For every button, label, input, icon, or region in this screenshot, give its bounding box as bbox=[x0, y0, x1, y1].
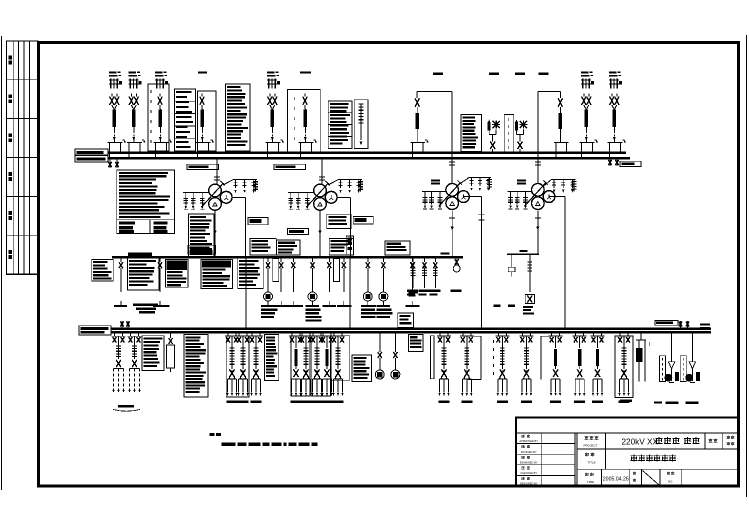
wire T3 MV lead bbox=[458, 178, 469, 186]
notes text block main transformers bbox=[117, 170, 175, 234]
neutral gear T3 bbox=[422, 191, 446, 193]
enclosure box T1 220kV bay bbox=[198, 91, 217, 151]
text nameplate T2 bbox=[327, 214, 351, 228]
wire T3 LV drop bbox=[451, 211, 453, 258]
svg-text:2005.04.26: 2005.04.26 bbox=[603, 477, 629, 483]
label 10kV bus left bbox=[79, 326, 111, 335]
label at 220kV bus end bbox=[620, 161, 641, 166]
neutral gear T4 bbox=[508, 191, 532, 193]
dashes on T3 right line bbox=[479, 213, 485, 215]
feeder 35kV T3 1 bbox=[412, 257, 414, 262]
enclosure box with arrester bbox=[354, 100, 368, 149]
feeder 110kV outgoing 1 bbox=[120, 257, 122, 262]
dashes inside box T2 bbox=[293, 97, 295, 100]
label 110kV bus section bbox=[188, 245, 215, 254]
neutral gear T2 bbox=[288, 191, 314, 193]
note heading bbox=[210, 433, 215, 436]
feeder 10kV 9 motor bbox=[379, 332, 381, 352]
mv gear T3 bbox=[469, 177, 491, 179]
notes block bottom cells bbox=[119, 222, 135, 225]
section divider line left bbox=[245, 257, 247, 328]
feeder 10kV 15 bbox=[551, 332, 553, 336]
svg-text:PROJECT: PROJECT bbox=[583, 444, 597, 448]
label right of T2 bbox=[353, 217, 373, 224]
wire 220kV bus to T2 bbox=[321, 158, 323, 184]
bay 220kV line bay 1 bbox=[109, 72, 117, 74]
label 10kV right end bbox=[700, 323, 710, 325]
enclosure box T4 220kV bay bbox=[538, 90, 561, 92]
enclosure box bypass bay bbox=[148, 84, 169, 151]
svg-text:TITLE: TITLE bbox=[587, 461, 595, 465]
label left of T3 bbox=[431, 179, 440, 181]
transformer T3 bbox=[446, 184, 459, 197]
wire jog near feeder 15 bbox=[541, 335, 549, 337]
equipment list block 4 bbox=[461, 115, 482, 152]
wire T2 MV lead bbox=[328, 180, 338, 185]
label 35kV group under block B bbox=[133, 304, 158, 307]
bay 220kV T3 breaker bay bbox=[415, 98, 419, 107]
mv gear T2 bbox=[338, 179, 362, 181]
svg-text:EXAMINED BY: EXAMINED BY bbox=[520, 460, 538, 464]
feeder 10kV 8 bbox=[333, 332, 335, 336]
bay 220kV PT 1 bbox=[488, 122, 491, 131]
left margin revision strip table bbox=[7, 41, 39, 274]
disconnector pair below 220kV bus left bbox=[109, 158, 111, 168]
note text line bbox=[222, 442, 236, 446]
feeder 110kV outgoing 2 bbox=[159, 257, 161, 262]
main drawing border bbox=[39, 43, 739, 487]
wire T2 LV drop bbox=[319, 210, 321, 257]
small box beside feeder 110kV 4 bbox=[273, 259, 279, 282]
wire T1 LV drop bbox=[214, 210, 216, 257]
small box beside feeder 110kV 7 bbox=[334, 259, 340, 282]
enclosure box 10kV group right bbox=[615, 336, 633, 398]
dashes box feeder bbox=[492, 340, 494, 343]
feeder 110kV outgoing 6 bbox=[312, 257, 314, 262]
wire T4 MV lead bbox=[544, 179, 552, 186]
text nameplate T1 bbox=[189, 214, 214, 257]
label 110kV bus bbox=[128, 253, 152, 258]
svg-text:RATIFIED BY: RATIFIED BY bbox=[521, 450, 537, 454]
enclosure box 10kV group 2 bbox=[291, 336, 310, 396]
feeder 10kV 7 bbox=[322, 332, 324, 336]
enclosure box 10kV group 1 bbox=[226, 336, 249, 397]
equipment block 110kV C bbox=[165, 259, 188, 287]
label box left of T1 drop bbox=[187, 164, 219, 169]
label above T3 35kV bus bbox=[440, 252, 449, 254]
svg-text:NO.: NO. bbox=[668, 480, 674, 484]
feeder 10kV 3 bbox=[251, 332, 253, 336]
equipment dark block 10kV 3 bbox=[409, 335, 424, 352]
equipment block 110kV E bbox=[238, 258, 264, 288]
bay 10kV PT right bbox=[640, 332, 642, 340]
dash marks left of T4 feeders bbox=[494, 305, 501, 307]
dashes inside PT2 box bbox=[507, 118, 509, 121]
feeder 110kV outgoing 7 bbox=[328, 257, 330, 262]
feeder 10kV 2 bbox=[238, 332, 240, 336]
feeder T4-35kV 1 bbox=[511, 254, 513, 262]
label PT right bbox=[620, 400, 632, 402]
label T3 bay top bbox=[433, 73, 443, 75]
bay 10kV arrester 2 bbox=[691, 332, 693, 361]
label T2 bay top bbox=[300, 72, 311, 74]
svg-text:CHECKED BY: CHECKED BY bbox=[520, 471, 537, 475]
label under T4 feeders bbox=[523, 306, 533, 308]
relay box 4 above 110kV bus bbox=[329, 238, 353, 255]
label right of T1 bbox=[248, 217, 268, 224]
busbar 110kV bus bbox=[112, 256, 463, 259]
enclosure box 10kV group 4 bbox=[332, 336, 350, 381]
equipment list block 2 bbox=[225, 84, 250, 151]
enclosure box 10kV group 3 bbox=[311, 336, 330, 396]
label 220kV bus I bbox=[75, 149, 108, 155]
feeder 35kV T3 3 bbox=[434, 257, 436, 262]
enclosure box 10kV group 5 bbox=[431, 336, 435, 379]
tick marks on T4 HV drop bbox=[535, 161, 541, 163]
tick marks on T3 HV drop bbox=[449, 161, 455, 163]
transformer T2 bbox=[314, 184, 327, 197]
label box left of T2 drop bbox=[274, 164, 306, 169]
feeder 110kV outgoing 9 bbox=[367, 257, 369, 262]
feeder 10kV 16 bbox=[575, 332, 577, 336]
relay box 2 above 110kV bus bbox=[277, 240, 301, 255]
feeder 10kV 17 bbox=[593, 332, 595, 336]
label arrester 2 bbox=[686, 402, 699, 404]
bay 220kV line bay 2 bbox=[129, 72, 137, 74]
wire T3 HV drop bbox=[451, 91, 453, 183]
label between T2 and divider bbox=[288, 228, 309, 234]
busbar 35kV section T4 bbox=[507, 253, 539, 255]
neutral gear T1 bbox=[183, 191, 209, 193]
relay box 3 on section divider bbox=[346, 236, 353, 255]
feeder 10kV 14 bbox=[521, 332, 523, 336]
transformer T4 bbox=[532, 184, 545, 197]
section divider line 110kV/10kV bbox=[349, 257, 351, 328]
relay box 5 above 110kV bus bbox=[385, 241, 410, 255]
disconnector pair above 10kV bus left bbox=[121, 321, 123, 329]
bay 10kV PT left bbox=[170, 332, 172, 338]
feeder 35kV T3 2 bbox=[424, 257, 426, 262]
wire T4 LV drop bbox=[537, 211, 539, 255]
bay 10kV arrester 1 bbox=[671, 332, 673, 361]
mv gear T4 bbox=[552, 178, 576, 180]
disconnector pair above 10kV bus right bbox=[680, 321, 682, 329]
outer sheet edge line left bbox=[1, 36, 3, 490]
label 10kV bus right bbox=[655, 321, 678, 326]
equipment block 10kV B bbox=[352, 355, 371, 381]
label 220kV bus II bbox=[75, 156, 108, 162]
feeder 10kV 6 bbox=[312, 332, 314, 336]
wire jog near feeder 12 bbox=[474, 335, 481, 337]
bay 220kV transformer T2 bay bbox=[303, 97, 307, 106]
enclosure box T3 220kV bay bbox=[417, 90, 452, 92]
equipment block 110kV D bbox=[201, 259, 233, 288]
bay 220kV line bay 4 bbox=[581, 72, 589, 74]
equipment list block 1 bbox=[175, 89, 196, 151]
equipment dark block 10kV 2 bbox=[264, 335, 278, 381]
feeder 10kV 1 bbox=[227, 332, 229, 336]
feeder 10kV cable 1 bbox=[114, 332, 116, 336]
bay 220kV line bay 3 bbox=[267, 72, 275, 74]
enclosure box PT 2 bbox=[504, 115, 514, 153]
feeder 110kV outgoing 10 bbox=[382, 257, 384, 262]
feeder 10kV 13 bbox=[497, 332, 499, 336]
label arrester 1 bbox=[666, 402, 679, 404]
wire 220kV bus to T1 bbox=[216, 158, 218, 184]
busbar 10kV bus line b bbox=[79, 331, 711, 333]
busbar 10kV bus line a bbox=[79, 327, 711, 329]
bay 220kV transformer T1 bay bbox=[200, 97, 204, 106]
feeder 110kV outgoing 11 bbox=[411, 257, 413, 262]
bay 220kV bypass bay bbox=[155, 72, 163, 74]
mv gear T1 bbox=[233, 179, 257, 181]
bay 220kV T4 breaker bay bbox=[558, 98, 562, 107]
dashes inside bypass box bbox=[150, 90, 152, 93]
enclosure box T2 220kV bay bbox=[287, 90, 320, 152]
equipment block 110kV B bbox=[127, 258, 159, 290]
bay 220kV line bay 5 bbox=[609, 72, 617, 74]
transformer T1 bbox=[209, 184, 222, 197]
equipment block 110kV A bbox=[92, 259, 114, 281]
text right of divider bbox=[409, 291, 419, 293]
busbar 220kV bus I bbox=[75, 151, 626, 154]
disconnector pair at 220kV bus end bbox=[609, 158, 611, 166]
label cable feeders bbox=[118, 405, 134, 408]
label left of T4 bbox=[517, 179, 526, 181]
svg-text:TIME: TIME bbox=[587, 480, 594, 484]
wire T1 MV lead bbox=[223, 180, 233, 185]
svg-text:DESIGNED BY: DESIGNED BY bbox=[520, 482, 538, 486]
feeder 110kV outgoing 5 bbox=[292, 257, 294, 262]
feeder T4-35kV 2 bbox=[529, 254, 531, 262]
feeder 10kV 12 bbox=[462, 332, 464, 336]
feeder 10kV 4 bbox=[291, 332, 293, 336]
equipment list block 3 bbox=[328, 101, 352, 149]
label T4 bay top bbox=[515, 73, 525, 75]
relay box 1 above 110kV bus bbox=[250, 238, 276, 255]
outer sheet edge line right bbox=[746, 35, 748, 497]
label T1 bay top bbox=[198, 72, 207, 74]
svg-text:APPROVED BY: APPROVED BY bbox=[519, 439, 538, 443]
title block bbox=[516, 418, 739, 487]
feeder 10kV 10 motor bbox=[394, 332, 396, 352]
feeder 110kV outgoing 4 bbox=[280, 257, 282, 262]
bay 220kV PT 2 bbox=[515, 122, 518, 131]
wire T4 HV drop bbox=[537, 91, 539, 183]
feeder 110kV outgoing 8 bbox=[343, 257, 345, 262]
label PT1 bay top bbox=[489, 73, 499, 75]
equipment dark block 10kV bbox=[184, 335, 208, 398]
box with text bottom of 110kV area bbox=[398, 313, 414, 327]
svg-text:220kV XX: 220kV XX bbox=[622, 437, 659, 446]
equipment block 10kV A bbox=[142, 336, 164, 371]
label above T4 35kV bus bbox=[520, 250, 528, 252]
feeder 10kV 5 bbox=[301, 332, 303, 336]
busbar 220kV bus II bbox=[75, 157, 630, 160]
feeder 10kV 11 bbox=[439, 332, 441, 336]
feeder 35kV T3 pt bbox=[456, 257, 458, 265]
arrester inside box bbox=[359, 103, 364, 105]
feeder 110kV outgoing 3 bbox=[267, 257, 269, 262]
feeder 10kV 18 bbox=[619, 332, 621, 336]
feeder 10kV cable 2 bbox=[130, 332, 132, 336]
